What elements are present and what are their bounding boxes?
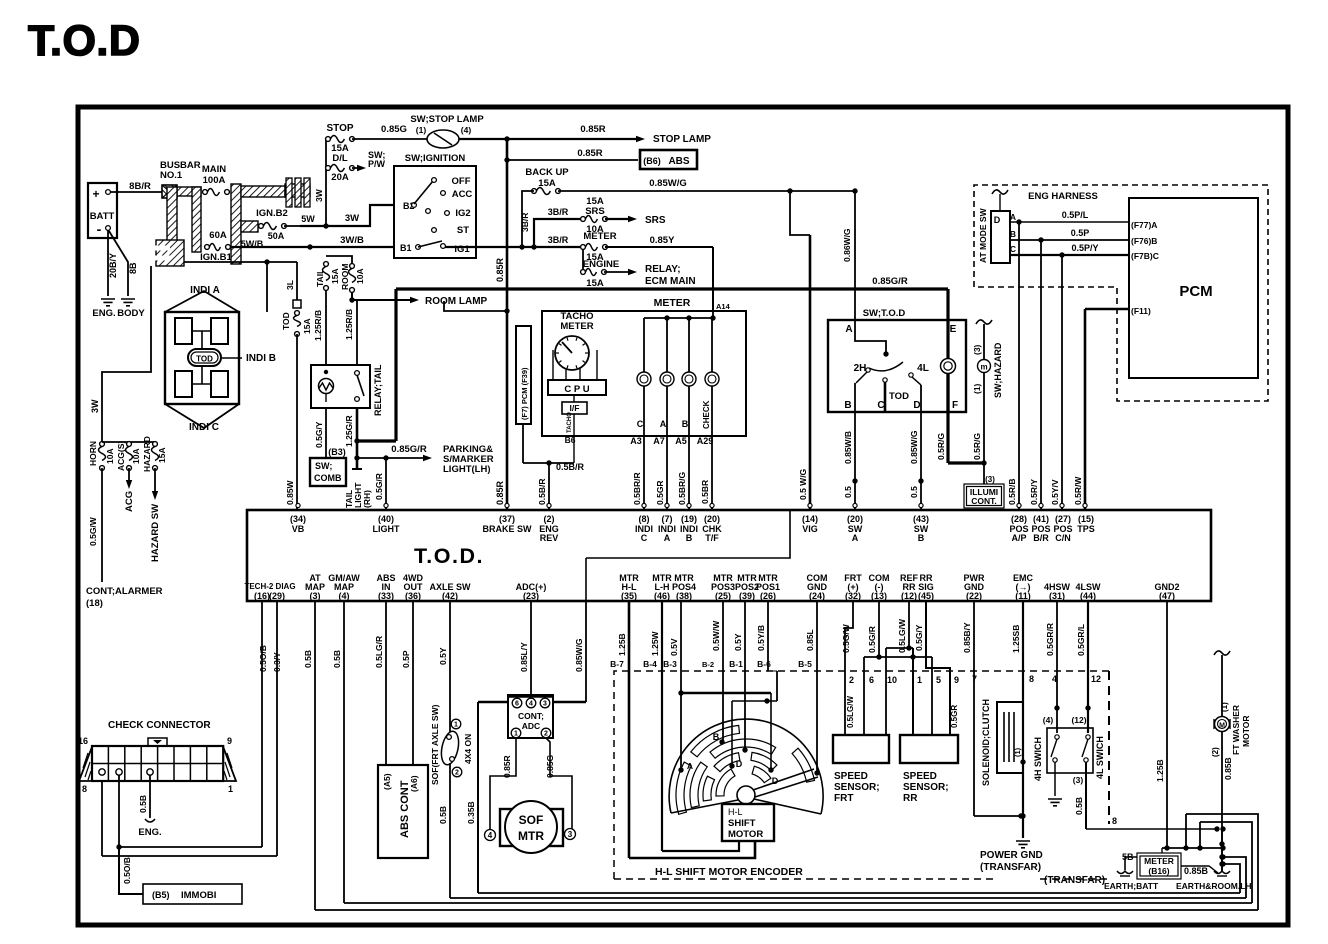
svg-text:ABS: ABS [668,156,689,167]
motor M ft washer [1214,717,1230,732]
svg-text:2: 2 [849,675,854,685]
svg-text:0.5G/W: 0.5G/W [841,623,851,653]
svg-text:(47): (47) [1159,591,1175,601]
svg-text:ROOM LAMP: ROOM LAMP [425,296,488,307]
svg-text:0.5GR/L: 0.5GR/L [1076,624,1086,656]
svg-text:METER: METER [654,297,691,309]
svg-text:0.85W/B: 0.85W/B [843,431,853,464]
svg-text:0.5P: 0.5P [1071,228,1090,238]
svg-text:TOD: TOD [196,355,213,364]
svg-text:(RH): (RH) [362,490,372,508]
svg-text:0.85L: 0.85L [805,629,815,651]
encoder hub and needle [737,769,818,804]
svg-text:10A: 10A [355,268,365,284]
svg-text:NO.1: NO.1 [160,170,183,181]
lamp letters [637,400,711,429]
wire 0.85G to sof mtr [545,738,572,829]
svg-text:6: 6 [515,701,519,708]
wire 1.25G/R relay to tail light node [344,408,362,469]
svg-text:(24): (24) [809,591,825,601]
box METER B16 [1137,848,1181,879]
wire 0.5P 4wd out [401,601,419,792]
wire 1.25B gnd2 [1155,601,1170,851]
wire riser stop fuses [314,139,326,226]
svg-text:(7): (7) [662,514,673,524]
svg-text:A29: A29 [697,436,714,446]
svg-text:SENSOR;: SENSOR; [834,782,880,793]
wire nest y893 [478,861,1240,893]
svg-text:0.5G/R: 0.5G/R [867,626,877,653]
wire 0.85W/G to adc [553,601,586,702]
svg-text:10: 10 [887,675,897,685]
svg-text:(14): (14) [802,514,818,524]
svg-text:SW;IGNITION: SW;IGNITION [405,153,466,164]
box SW;COMB [310,458,346,486]
wire 0.5B GM/AW MAP [332,601,344,903]
svg-text:CONT.: CONT. [971,496,997,506]
svg-text:1.25SB: 1.25SB [1011,625,1021,653]
fuse TOD 15A [281,262,312,336]
wire SW TOD E thick [948,289,987,466]
svg-text:0.3/Y: 0.3/Y [272,652,282,672]
svg-text:RR: RR [903,793,918,804]
svg-text:B-3: B-3 [663,659,677,669]
wire busbar comb to VB [184,259,297,290]
svg-text:ECM MAIN: ECM MAIN [645,276,696,287]
svg-text:T.O.D.: T.O.D. [414,544,484,568]
svg-text:C/N: C/N [1055,533,1071,543]
svg-text:TOD: TOD [889,391,909,402]
svg-text:(43): (43) [913,514,929,524]
wire 0.5B 4l switch down [1074,762,1226,832]
svg-text:(4): (4) [1043,715,1054,725]
svg-text:M: M [1219,723,1225,730]
svg-text:0.5B/R: 0.5B/R [537,479,547,505]
svg-text:ADC: ADC [522,721,540,731]
wire tacho output B6 [565,412,576,463]
svg-text:0.5V: 0.5V [669,638,679,656]
relay RELAY;TAIL [311,364,383,416]
wire 0.85W/B SW A [843,412,858,510]
svg-text:4L SWICH: 4L SWICH [1095,736,1105,779]
wire 1.25R/B to relay coil [313,290,326,365]
svg-text:3B/R: 3B/R [548,235,569,245]
svg-text:(40): (40) [378,514,394,524]
svg-text:4X4 ON: 4X4 ON [463,734,473,764]
svg-text:(3): (3) [985,475,995,484]
svg-text:8B/R: 8B/R [129,181,151,192]
svg-text:A: A [852,533,859,543]
svg-text:TECH-2 DIAG: TECH-2 DIAG [244,582,295,591]
svg-text:(8): (8) [639,514,650,524]
label T.O.D pins bottom row [244,573,1179,601]
svg-text:(16): (16) [254,591,270,601]
svg-text:(F77)A: (F77)A [1131,220,1157,230]
svg-text:C P U: C P U [564,384,589,395]
wire 0.85W/G from backup fuse [558,178,858,194]
svg-text:0.5B: 0.5B [332,650,342,668]
svg-text:ACG: ACG [124,491,135,512]
svg-text:PCM: PCM [1179,283,1212,300]
svg-text:TOD: TOD [281,312,291,330]
svg-text:0.5B: 0.5B [438,806,448,824]
svg-text:0.85B: 0.85B [1184,866,1209,876]
fuse ENGINE 15A [581,249,620,289]
svg-text:P/W: P/W [368,159,386,169]
svg-text:(42): (42) [442,591,458,601]
svg-text:(28): (28) [1011,514,1027,524]
svg-text:A: A [1010,212,1016,222]
svg-text:A7: A7 [653,436,665,446]
svg-text:m: m [980,363,987,372]
svg-text:4L: 4L [917,363,929,374]
svg-text:0.5Y: 0.5Y [733,633,743,651]
wire 1.25SB emc [1011,601,1026,838]
wire 0.5O/B to IMMOBI [119,847,143,894]
svg-text:HORN: HORN [88,441,98,466]
busbar comb right end [285,178,310,207]
wire to illumi cont [984,463,995,484]
battery BATT [88,183,117,238]
busbar vertical bar B [192,187,201,252]
svg-text:1.25B: 1.25B [617,633,627,656]
svg-text:MTR: MTR [518,829,544,843]
svg-text:(3): (3) [972,344,982,355]
svg-text:1.25R/B: 1.25R/B [344,309,354,340]
svg-text:IGN.B2: IGN.B2 [256,208,288,219]
svg-text:TPS: TPS [1077,524,1095,534]
svg-text:1: 1 [454,722,458,729]
wire BATT+ to busbar 8B/R [110,181,163,192]
wire 0.85W/G SW B [909,412,924,510]
svg-text:(23): (23) [523,591,539,601]
svg-text:0.5P/Y: 0.5P/Y [1071,243,1098,253]
svg-text:(34): (34) [290,514,306,524]
svg-text:60A: 60A [209,230,227,241]
wire thick tail light junction [357,289,396,441]
svg-text:0.5O/B: 0.5O/B [258,645,268,672]
wire 0.86W/G to SW TOD A [842,191,855,320]
label TAIL LIGHT RH [344,482,372,508]
box ILLUMI CONT [964,484,1004,508]
svg-text:AT MODE SW: AT MODE SW [978,207,988,263]
svg-text:0.85L/Y: 0.85L/Y [519,642,529,672]
svg-text:LIGHT(LH): LIGHT(LH) [443,464,491,475]
svg-text:(29): (29) [269,591,285,601]
svg-text:INDI C: INDI C [189,422,219,433]
svg-text:EARTH;BATT: EARTH;BATT [1104,881,1159,891]
svg-text:B: B [918,533,925,543]
svg-text:20A: 20A [331,172,349,183]
wire 0.85L com gnd to B-5 [805,601,820,776]
svg-text:B6: B6 [565,435,576,445]
svg-text:100A: 100A [203,175,226,186]
wire 5B earth batt [1122,852,1137,870]
svg-text:SOLENOID;CLUTCH: SOLENOID;CLUTCH [981,699,991,786]
wire 0.5V mtr pos4 [669,601,684,773]
wire 0.5G/W frt+ [841,601,855,735]
svg-text:B: B [844,400,851,411]
svg-text:A: A [845,324,852,335]
fuse STOP 15A [326,123,355,154]
svg-text:0.5Y/V: 0.5Y/V [1050,479,1060,505]
wire 0.5GR/L 4lsw [1071,601,1090,733]
fuse HORN 10A [88,441,115,470]
svg-text:0.5GR: 0.5GR [950,705,959,728]
svg-text:0.5W/W: 0.5W/W [711,620,721,651]
svg-text:MOTOR: MOTOR [1241,716,1251,747]
svg-text:0.5 W/G: 0.5 W/G [798,468,808,500]
wire to SRS [605,215,666,226]
label PARKING S/MARKER LIGHT [443,444,494,475]
svg-text:C: C [877,400,884,411]
wire 0.5BR/G [677,436,689,510]
switch 4H SWICH [1033,728,1093,796]
svg-text:C: C [641,533,648,543]
svg-text:20B/Y: 20B/Y [108,253,118,278]
solenoid SOLENOID;CLUTCH [981,699,1023,786]
svg-text:50A: 50A [268,231,285,241]
wire to RELAY ECM MAIN [604,264,696,287]
ground POWER GND TRANSFAR [980,841,1043,873]
wire 0.85L/Y adc [519,601,531,695]
module PCM [1129,198,1258,378]
svg-text:0.85G/R: 0.85G/R [391,444,427,455]
svg-text:FRT: FRT [834,793,853,804]
svg-text:0.35B: 0.35B [466,801,476,824]
svg-text:STOP: STOP [326,123,353,134]
encoder track arcs [676,725,815,814]
wire PCM F39 down [522,424,524,463]
svg-text:0.85R: 0.85R [580,124,605,135]
lamp indicator C [637,372,651,386]
svg-text:+: + [92,187,99,201]
svg-text:0.5BR/G: 0.5BR/G [677,472,687,505]
svg-text:15A: 15A [157,447,167,463]
box I/F [562,395,587,414]
wire 0.85G to stop lamp switch [352,124,427,139]
wire 0.5P/Y [1010,243,1129,258]
svg-text:(1): (1) [972,383,982,394]
svg-text:2H: 2H [854,363,867,374]
svg-text:SHIFT: SHIFT [728,818,756,829]
svg-text:15A: 15A [330,268,340,284]
svg-text:(18): (18) [86,598,103,609]
wire 0.5R/B POS A/P [1007,222,1019,510]
svg-text:0.85R: 0.85R [502,755,512,778]
switch SW;STOP LAMP [410,114,484,148]
svg-text:1: 1 [514,731,518,738]
svg-text:B: B [713,732,720,742]
svg-text:SW;STOP LAMP: SW;STOP LAMP [410,114,484,125]
svg-text:A: A [660,419,667,429]
svg-text:(11): (11) [1015,591,1031,601]
svg-text:(46): (46) [654,591,670,601]
tacho meter [553,311,597,380]
svg-text:3: 3 [543,701,547,708]
svg-text:B: B [686,533,693,543]
svg-text:COMB: COMB [314,473,342,483]
motor H-L SHIFT MOTOR box [722,804,774,841]
svg-text:0.5G/R: 0.5G/R [374,473,384,500]
svg-text:8: 8 [82,784,87,794]
svg-text:BATT: BATT [90,211,115,222]
svg-text:(20): (20) [847,514,863,524]
wire earth bus [1162,829,1226,872]
svg-text:(TRANSFAR): (TRANSFAR) [1044,875,1105,886]
svg-text:4: 4 [529,701,533,708]
svg-text:(33): (33) [378,591,394,601]
wire 0.5G/R com- [864,601,932,735]
svg-text:(39): (39) [739,591,755,601]
svg-text:B1: B1 [400,243,412,253]
node square connector [293,300,301,308]
svg-text:0.5B: 0.5B [303,650,313,668]
wire 0.85R to sof mtr [490,738,516,830]
svg-text:SPEED: SPEED [903,771,937,782]
svg-text:0.5P: 0.5P [401,650,411,668]
svg-text:3B/R: 3B/R [548,207,569,217]
svg-text:(32): (32) [845,591,861,601]
svg-text:POWER GND: POWER GND [980,850,1043,861]
meter pin labels A3 A7 A5 A29 [630,436,713,446]
svg-text:0.5GR: 0.5GR [655,480,665,505]
svg-text:B-2: B-2 [702,660,714,669]
wire 0.85B/Y pwr gnd [962,601,1024,819]
svg-text:1: 1 [917,675,922,685]
svg-text:D: D [994,215,1001,225]
fuse BACK UP 15A [525,167,569,195]
wire 1.25W mtr l-h [650,601,739,851]
svg-text:INDI B: INDI B [246,353,276,364]
wire HAZARD SW arrow [150,468,161,562]
svg-text:4: 4 [488,831,493,840]
svg-text:0.5G/Y: 0.5G/Y [914,624,924,651]
harness H-L shift motor encoder dashed box [614,671,1109,879]
svg-text:(35): (35) [621,591,637,601]
wire BATT- to ENG ground [108,230,118,296]
wire F11 to TPS [1085,309,1129,510]
wire 0.5B check connector ground [138,775,162,838]
busbar NO.1 label [160,160,201,181]
ground EARTH BATT [1104,871,1159,891]
svg-text:(15): (15) [1078,514,1094,524]
svg-text:IMMOBI: IMMOBI [181,890,216,901]
wire 0.85B meter to earth room [1181,866,1218,876]
wire SW;HAZARD [972,320,1003,463]
svg-text:BODY: BODY [117,308,145,319]
svg-text:ACC: ACC [452,189,473,200]
svg-text:0.5R/W: 0.5R/W [1073,476,1083,505]
switch SW TOD internals [854,320,929,412]
svg-text:(36): (36) [405,591,421,601]
svg-text:B-7: B-7 [610,659,624,669]
svg-text:A3: A3 [630,436,642,446]
svg-text:CONT;: CONT; [518,711,544,721]
switch 4L SWICH [1073,735,1105,785]
svg-text:-: - [97,221,102,237]
lamp indicator A [660,372,674,386]
svg-text:(1): (1) [416,125,427,135]
svg-text:T/F: T/F [705,533,719,543]
wire nest y903 [344,822,1252,903]
svg-text:0.5R/G: 0.5R/G [936,433,946,460]
svg-text:B-5: B-5 [798,659,812,669]
wire 0.85W/G VIG drop [790,191,810,510]
svg-text:MOTOR: MOTOR [728,829,763,840]
node pin marks top of T.O.D box [296,503,1087,507]
svg-text:(44): (44) [1080,591,1096,601]
svg-text:0.85G: 0.85G [545,754,555,778]
svg-text:SW;T.O.D: SW;T.O.D [863,308,906,319]
svg-text:3W/B: 3W/B [340,235,364,246]
svg-text:A14: A14 [716,302,731,311]
svg-text:B-4: B-4 [643,659,657,669]
svg-text:ACG(S): ACG(S) [116,441,126,471]
wire 0.5GR [655,436,667,510]
svg-text:4H SWICH: 4H SWICH [1033,737,1043,781]
svg-text:SW;HAZARD: SW;HAZARD [993,342,1003,398]
svg-text:5W: 5W [301,214,315,224]
svg-text:B: B [1010,229,1016,239]
busbar vertical bar C [231,184,241,264]
wire 3W horn branch [90,266,151,442]
svg-text:2: 2 [455,770,459,777]
svg-text:D: D [736,759,743,769]
connector CHECK CONNECTOR [78,720,236,794]
svg-text:0.85W/G: 0.85W/G [649,178,687,189]
label T.O.D pins top row [290,514,1095,543]
svg-text:TACHO: TACHO [567,412,573,433]
svg-text:HAZARD: HAZARD [142,436,152,472]
svg-text:ENG.: ENG. [138,827,161,838]
harness transfar dashed right edge [1109,671,1117,826]
wire 0.5Y/V POS C/N [1050,255,1062,510]
busbar horizontal bar left [177,187,201,196]
switch 4X4 ON sof axle [439,719,473,777]
ECU T.O.D main box [247,510,1211,601]
svg-text:A: A [664,533,671,543]
svg-text:MAIN: MAIN [202,164,226,175]
motor SOF MTR [485,801,576,853]
svg-text:B-1: B-1 [729,659,743,669]
svg-text:F: F [952,400,958,411]
switch SW;T.O.D box [828,308,966,412]
fuse TAIL 15A [315,262,340,291]
svg-text:0.85R: 0.85R [495,257,505,282]
wire 0.3/Y tech2 pin29 [102,601,282,856]
svg-text:0.5BR: 0.5BR [700,480,710,504]
encoder fan body [669,719,823,814]
connector AT MODE SW [978,190,1016,263]
svg-text:9: 9 [227,736,232,746]
svg-text:(41): (41) [1033,514,1049,524]
fuse IGN.B2 50A [256,208,288,241]
svg-text:0.5R/B: 0.5R/B [1007,479,1017,505]
svg-text:(4): (4) [339,591,350,601]
svg-text:C: C [637,419,644,429]
svg-text:3B/R: 3B/R [520,213,530,232]
svg-text:0.5LG/R: 0.5LG/R [374,636,384,668]
wire ACG arrow [124,468,135,512]
fuse MAIN 100A [202,164,230,196]
svg-text:ROOM: ROOM [340,264,350,290]
svg-text:8: 8 [1112,816,1117,826]
svg-text:0.5P/L: 0.5P/L [1062,210,1089,220]
sensor SPEED SENSOR FRT [833,735,889,804]
svg-text:ENG.: ENG. [92,308,115,319]
svg-text:3W: 3W [345,213,359,224]
